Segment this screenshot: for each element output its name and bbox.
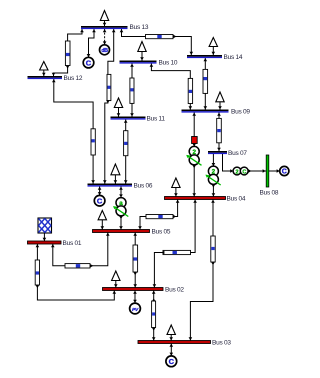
- bus 02: [103, 288, 164, 291]
- svg-text:2: 2: [192, 149, 196, 156]
- wire bus13 to condenser C13: [89, 29, 95, 57]
- line box 10-11: [130, 78, 134, 103]
- line box 13-14: [146, 35, 174, 39]
- band 12-13: [66, 53, 70, 56]
- wire line 9-10: [151, 64, 190, 110]
- wire bus12 to bus13 upper: [68, 29, 82, 41]
- svg-text:Bus 14: Bus 14: [224, 54, 243, 61]
- svg-text:C: C: [86, 58, 92, 67]
- wire line 2-3: [153, 291, 155, 341]
- line box 9-10: [188, 78, 192, 103]
- wire bus07 to bus08: [223, 154, 280, 171]
- line box 9-14: [203, 69, 208, 93]
- wire transformer 4-7 branch: [212, 154, 214, 197]
- line box 1-2: [35, 260, 39, 285]
- load at bus 14: [209, 38, 217, 47]
- bus 01: [28, 241, 62, 244]
- load stem bus 13: [104, 21, 106, 27]
- svg-text:Bus 02: Bus 02: [165, 286, 184, 293]
- arrows into bus tops (apex down): [103, 23, 107, 26]
- wire line 1-2: [37, 244, 114, 300]
- wire line 9-14: [204, 58, 206, 110]
- svg-text:Bus 01: Bus 01: [63, 240, 82, 247]
- svg-text:PV: PV: [132, 307, 139, 313]
- load stem bus 06: [114, 175, 116, 184]
- bus 10: [120, 61, 157, 64]
- wire line 4-5: [140, 200, 178, 230]
- svg-text:Bus 04: Bus 04: [227, 195, 246, 202]
- bus 14: [187, 55, 222, 58]
- svg-text:Bus 09: Bus 09: [231, 108, 250, 115]
- band 2-5: [134, 257, 138, 260]
- transformer 4-7: [205, 166, 220, 185]
- load stem bus 05: [101, 220, 103, 230]
- wire line 6-11: [125, 120, 127, 184]
- load at bus 11: [114, 98, 122, 108]
- wire line 10-11: [131, 64, 133, 117]
- load at bus 10: [138, 42, 146, 52]
- bus 06: [88, 184, 133, 187]
- arrows into components: [103, 41, 107, 44]
- svg-text:2: 2: [235, 169, 238, 175]
- bus 12: [28, 76, 63, 79]
- svg-text:C: C: [282, 169, 287, 176]
- svg-text:Bus 03: Bus 03: [212, 339, 231, 346]
- svg-text:Bus 08: Bus 08: [260, 189, 279, 196]
- band 6-12: [92, 139, 95, 142]
- bus 04: [165, 197, 226, 200]
- svg-text:Bus 05: Bus 05: [152, 228, 171, 235]
- transformer 5-6: [113, 198, 128, 217]
- band 6-13: [108, 86, 111, 89]
- wire line 6-13: [105, 29, 114, 184]
- wire line 2-4: [154, 200, 195, 288]
- transformer 4-9: [186, 146, 201, 165]
- condenser C at bus 08: [280, 166, 289, 175]
- bus 13: [81, 26, 128, 29]
- bus 03: [138, 341, 211, 344]
- load at bus 12: [40, 62, 48, 71]
- band 9-14: [204, 77, 208, 80]
- load stem bus 09: [219, 102, 221, 110]
- wire external grid stem: [43, 233, 45, 241]
- band 2-3: [152, 312, 155, 315]
- bus 09: [182, 110, 229, 113]
- bus 05: [93, 230, 150, 233]
- load at bus 02: [112, 271, 120, 281]
- svg-text:Bus 10: Bus 10: [159, 59, 178, 66]
- svg-text:2: 2: [212, 169, 216, 176]
- load at bus 04: [172, 178, 180, 188]
- band 9-10: [189, 90, 192, 93]
- svg-text:Bus 07: Bus 07: [228, 150, 247, 157]
- svg-text:dB: dB: [101, 48, 108, 54]
- condenser C at bus 06: [94, 195, 105, 206]
- band 6-11: [124, 142, 127, 145]
- svg-text:C: C: [242, 169, 246, 175]
- load at bus 09: [216, 92, 224, 102]
- wire line 7-9: [218, 113, 220, 152]
- wire bus03 to condenser C03: [170, 344, 172, 356]
- line box 6-11: [124, 131, 128, 156]
- band 1-5: [76, 264, 80, 267]
- arrows at box exits: [66, 66, 70, 69]
- svg-text:Bus 13: Bus 13: [130, 24, 149, 31]
- wire line 13-14: [122, 29, 192, 55]
- load at bus 06: [111, 164, 120, 175]
- load at bus 03: [167, 325, 175, 335]
- wire bus02 to generator PV: [134, 291, 136, 304]
- wire line 6-12: [54, 79, 93, 184]
- wire line 3-4: [190, 200, 213, 341]
- band 10-11: [130, 88, 133, 91]
- line box 6-12: [91, 129, 95, 155]
- line box 2-3: [152, 301, 156, 328]
- generator PV at bus 02: [130, 303, 141, 314]
- load stem bus 10: [141, 52, 143, 61]
- band 7-9: [217, 129, 221, 132]
- wire line 2-5: [134, 233, 136, 288]
- svg-text:C: C: [169, 357, 175, 366]
- bus 08 (vertical): [266, 155, 269, 187]
- condenser C at bus 13: [83, 57, 94, 68]
- line box 2-5: [133, 245, 138, 272]
- bus 07: [208, 151, 227, 154]
- line box 12-13: [65, 41, 70, 66]
- wire transformer 4-9 branch: [193, 113, 195, 197]
- wire bus06 to condenser C06: [99, 187, 101, 196]
- load stem bus 04: [175, 188, 177, 197]
- line box 2-4: [163, 250, 191, 254]
- machine dB circle at bus 13: [100, 45, 110, 55]
- load at bus 13: [100, 11, 108, 21]
- transformer 7-8 (horizontal): [233, 167, 248, 175]
- wire transformer 5-6 branch: [120, 187, 122, 230]
- svg-text:Bus 11: Bus 11: [147, 115, 166, 122]
- condenser C at bus 03: [166, 356, 177, 367]
- horizontal arrows on 7-8 run and boxes: [230, 169, 233, 173]
- svg-text:C: C: [97, 196, 103, 205]
- load stem bus 14: [212, 47, 214, 56]
- band 3-4: [211, 247, 214, 250]
- load at bus 05: [98, 211, 106, 220]
- svg-text:Bus 12: Bus 12: [64, 75, 83, 82]
- line box 6-13: [107, 74, 111, 100]
- band 1-2: [36, 271, 39, 274]
- bus 11: [111, 117, 146, 120]
- band 4-5: [158, 215, 162, 218]
- band 13-14: [157, 35, 161, 38]
- load stem bus 12: [43, 70, 45, 76]
- line box 3-4: [211, 236, 215, 262]
- line box 7-9: [217, 118, 222, 142]
- svg-text:Bus 06: Bus 06: [134, 182, 153, 189]
- wire bus12 to bus13 lower: [54, 66, 68, 77]
- line box 4-5: [146, 215, 173, 219]
- load stem bus 03: [170, 335, 172, 341]
- wire bus13 to machine dB (dashed): [104, 29, 106, 45]
- external grid (slack) at bus 01: [38, 218, 52, 233]
- breaker red box on 4-9 branch: [192, 137, 198, 144]
- svg-text:a: a: [119, 200, 123, 207]
- load stem bus 02: [115, 281, 117, 288]
- arrows into bus bottoms (apex up): [80, 29, 84, 32]
- wire line 1-5: [53, 233, 108, 266]
- band 2-4: [173, 251, 177, 254]
- line box 1-5: [65, 264, 90, 268]
- load stem bus 11: [118, 108, 120, 117]
